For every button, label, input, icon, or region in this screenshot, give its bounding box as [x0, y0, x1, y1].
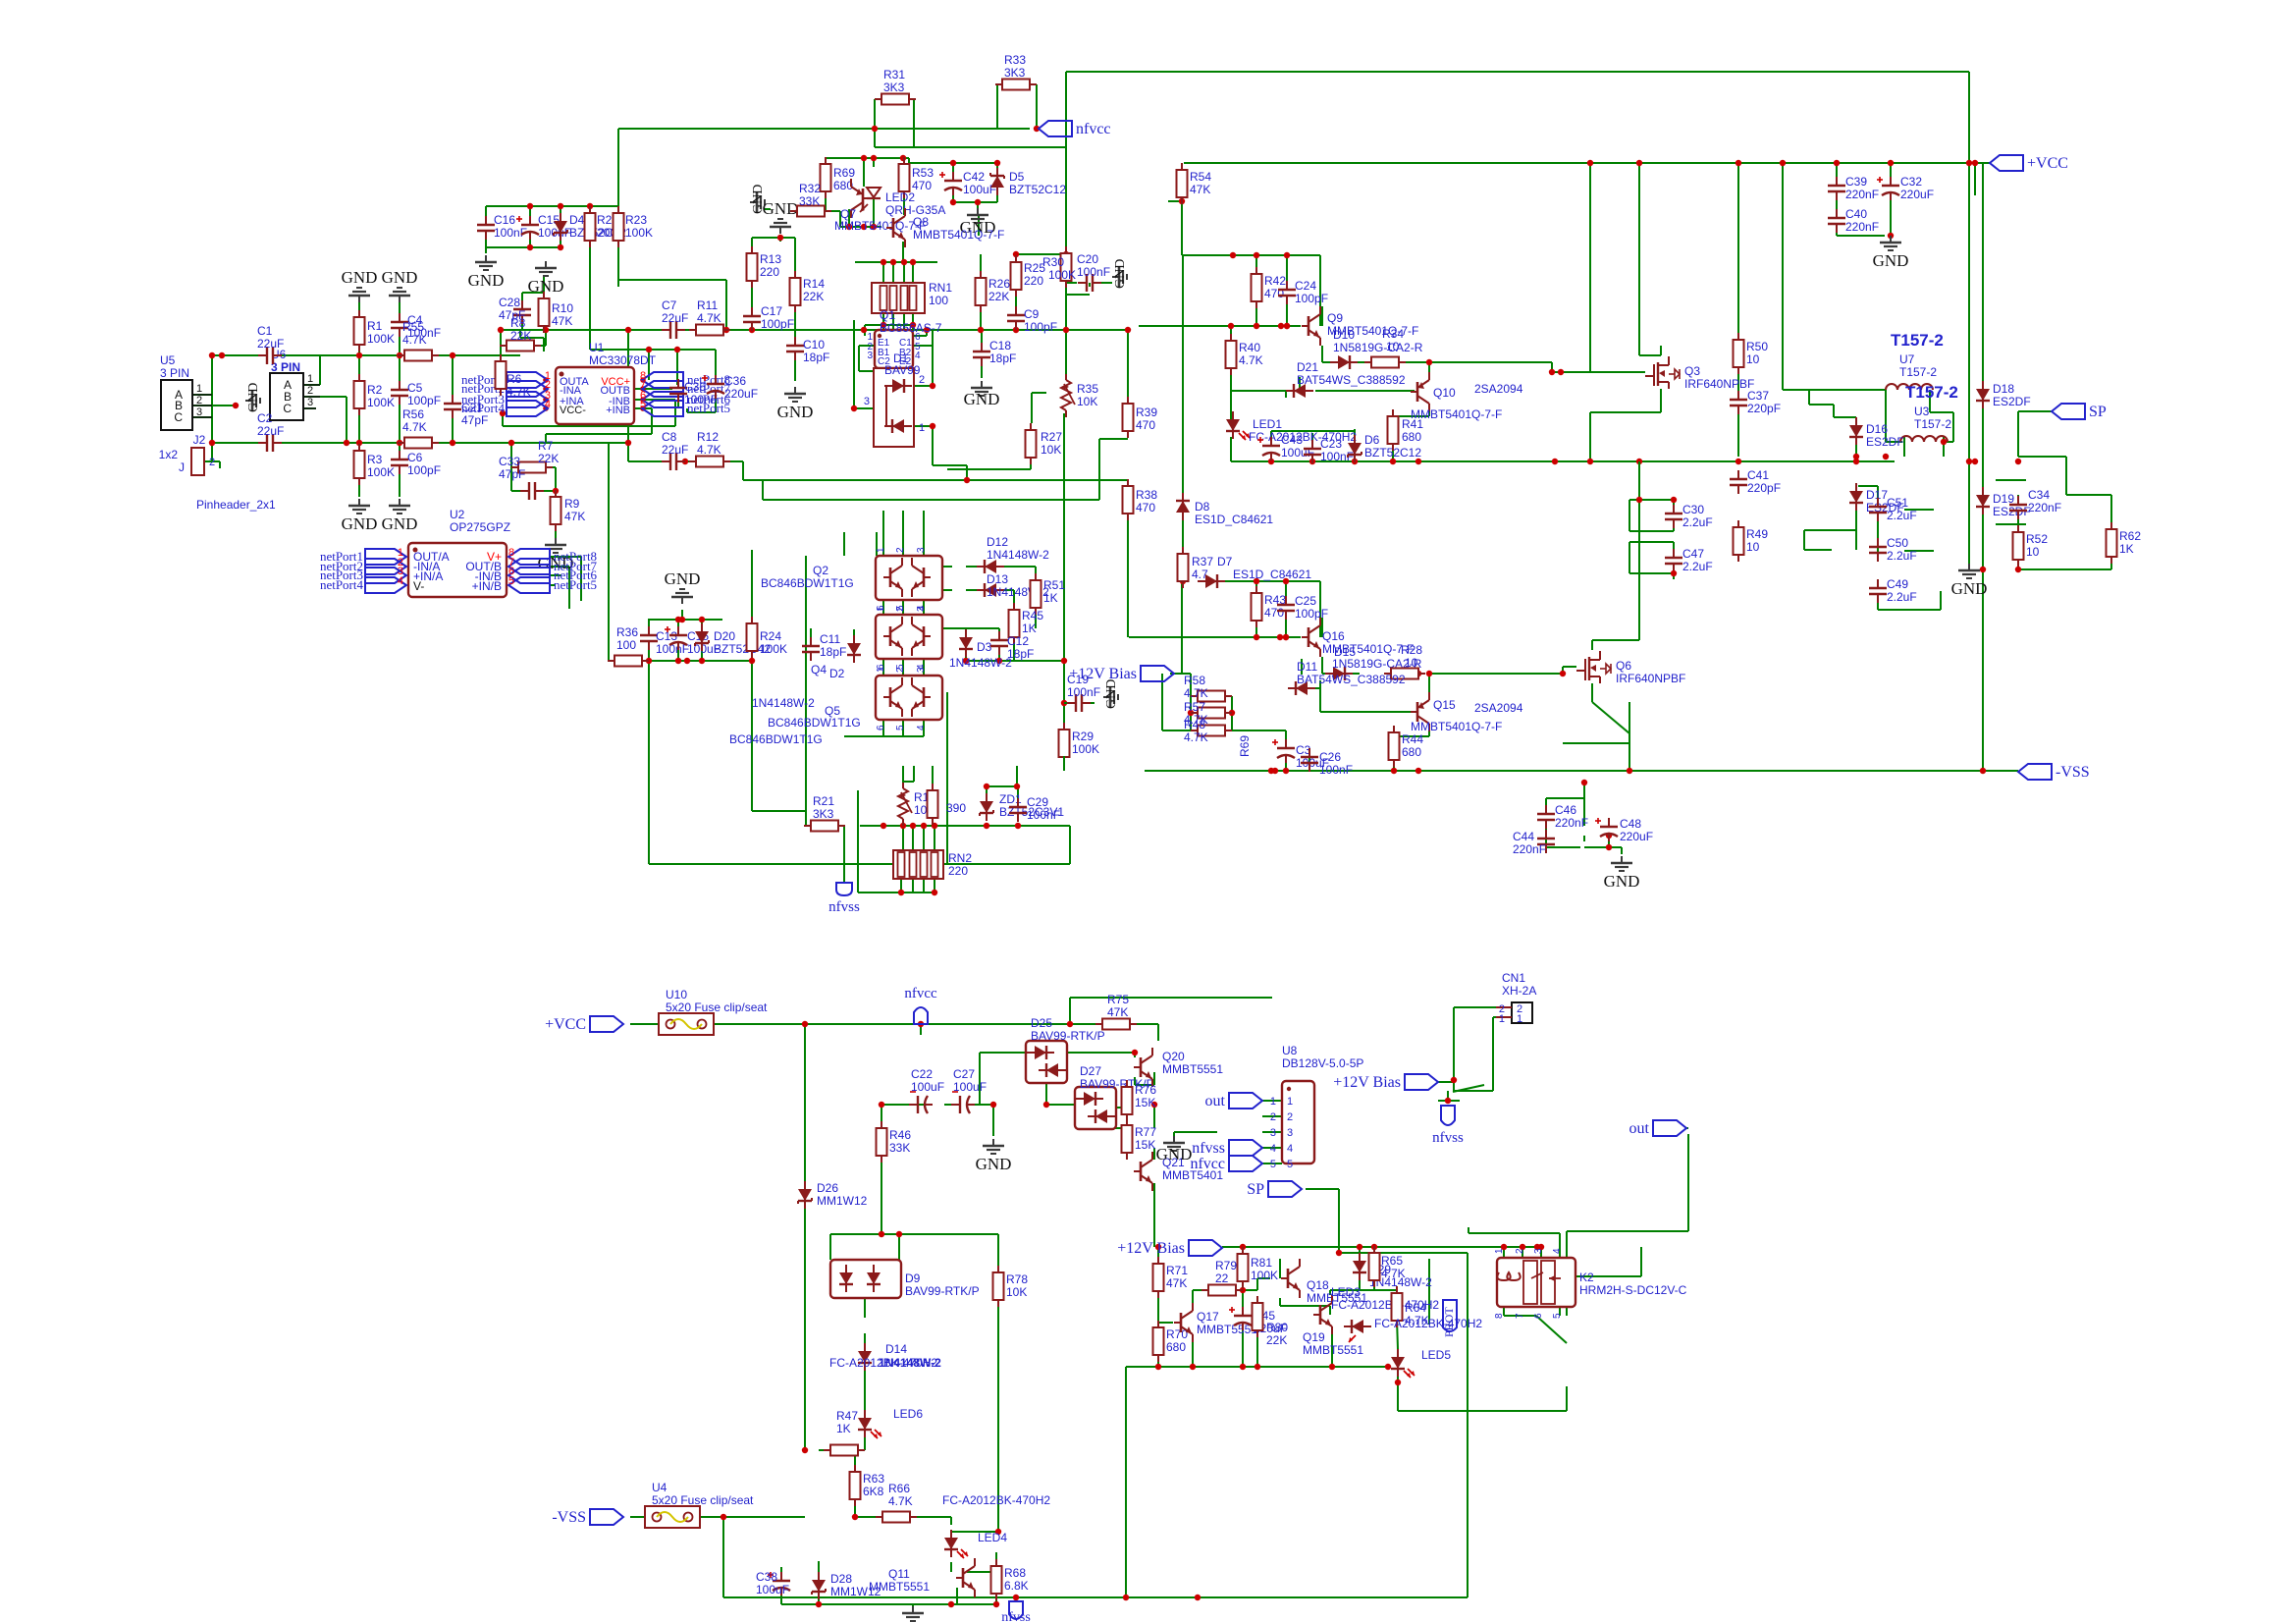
- svg-text:470: 470: [1136, 501, 1155, 514]
- resistor R6: [496, 354, 531, 399]
- resistor R64: [1392, 1286, 1429, 1327]
- resistor R78: [993, 1266, 1029, 1307]
- svg-text:22K: 22K: [1266, 1333, 1287, 1347]
- svg-text:C34: C34: [2028, 488, 2050, 502]
- svg-text:R8: R8: [510, 316, 526, 330]
- flag PROT: [1442, 1300, 1457, 1337]
- svg-text:3: 3: [196, 406, 202, 418]
- svg-text:LED5: LED5: [1421, 1348, 1451, 1362]
- svg-text:BAV99: BAV99: [884, 363, 921, 377]
- capacitor C48: [1595, 817, 1653, 843]
- ground near U5: [245, 383, 261, 412]
- svg-text:PROT: PROT: [1442, 1307, 1456, 1337]
- svg-text:R31: R31: [883, 68, 905, 81]
- svg-text:4: 4: [1552, 1248, 1563, 1254]
- svg-text:D9: D9: [905, 1271, 921, 1285]
- svg-text:nfvcc: nfvcc: [1076, 121, 1111, 137]
- svg-text:C48: C48: [1620, 817, 1641, 831]
- svg-text:R53: R53: [912, 166, 934, 180]
- svg-text:2.2uF: 2.2uF: [1887, 549, 1917, 563]
- svg-text:C2: C2: [257, 411, 273, 425]
- svg-text:C5: C5: [407, 381, 423, 395]
- svg-text:100uF: 100uF: [756, 1583, 789, 1596]
- resistor R53: [899, 157, 934, 198]
- resistor R48: [1184, 718, 1232, 744]
- svg-text:100nF: 100nF: [1027, 808, 1060, 822]
- svg-text:1N4148W-2: 1N4148W-2: [879, 1356, 941, 1370]
- svg-text:GND: GND: [964, 390, 1000, 408]
- resistor R44: [1389, 726, 1424, 767]
- resistor R23: [614, 206, 654, 247]
- svg-text:100pF: 100pF: [407, 463, 441, 477]
- svg-text:100K: 100K: [367, 332, 395, 346]
- svg-text:R34: R34: [1382, 327, 1404, 341]
- transistor pair Q2: [761, 547, 942, 611]
- svg-text:100K: 100K: [367, 465, 395, 479]
- svg-text:680: 680: [1402, 745, 1421, 759]
- resistor R32: [790, 182, 831, 217]
- svg-text:D26: D26: [817, 1181, 838, 1195]
- svg-text:C22: C22: [911, 1067, 933, 1081]
- svg-text:Q2: Q2: [813, 564, 828, 577]
- capacitor C20: [1077, 252, 1110, 292]
- resistor R43: [1252, 586, 1287, 627]
- svg-text:nfvcc: nfvcc: [1190, 1156, 1225, 1172]
- capacitor C10: [786, 337, 829, 364]
- svg-text:Q20: Q20: [1162, 1050, 1185, 1063]
- resistor R76: [1122, 1080, 1157, 1121]
- svg-text:D10: D10: [1333, 328, 1355, 342]
- resistor R7: [511, 439, 559, 473]
- svg-text:D7: D7: [1217, 555, 1233, 568]
- svg-text:D28: D28: [830, 1572, 852, 1586]
- svg-text:D13: D13: [987, 572, 1008, 586]
- svg-text:22uF: 22uF: [257, 337, 284, 351]
- fuse U4: [645, 1481, 754, 1528]
- transistor pair Q5: [729, 667, 942, 746]
- transistor Q7 with LED2: [834, 179, 945, 233]
- resistor R55: [398, 320, 439, 361]
- svg-text:Q11: Q11: [888, 1567, 910, 1581]
- svg-text:220nF: 220nF: [2028, 501, 2061, 514]
- resistor R37: [1178, 547, 1214, 588]
- svg-text:100nF: 100nF: [1077, 265, 1110, 279]
- svg-text:3: 3: [1270, 1127, 1276, 1139]
- inductor U3 T157-2: [1900, 383, 1958, 442]
- svg-text:6.8K: 6.8K: [1004, 1579, 1029, 1593]
- capacitor C35: [669, 379, 718, 406]
- resistor R69: [821, 157, 856, 198]
- svg-text:100nF: 100nF: [1067, 685, 1100, 699]
- capacitor C45: [1229, 1307, 1287, 1335]
- connector U8: [1270, 1044, 1364, 1170]
- svg-text:-VSS: -VSS: [552, 1509, 586, 1526]
- label R69 rotated: [1238, 735, 1252, 757]
- svg-text:C40: C40: [1845, 207, 1867, 221]
- netPort1 arrow at U2: [320, 547, 406, 565]
- svg-text:D11: D11: [1297, 660, 1317, 674]
- svg-text:IRF640NPBF: IRF640NPBF: [1684, 377, 1754, 391]
- net flag +12V Bias relay: [1117, 1240, 1222, 1257]
- svg-text:R46: R46: [889, 1128, 911, 1142]
- svg-text:ES2DF: ES2DF: [1993, 395, 2031, 408]
- svg-text:5: 5: [1287, 1159, 1293, 1170]
- svg-text:R9: R9: [564, 497, 580, 511]
- ground far right: [1951, 564, 1988, 598]
- svg-text:22K: 22K: [510, 329, 531, 343]
- svg-text:2: 2: [209, 457, 215, 468]
- diode D8: [1176, 493, 1273, 526]
- svg-text:R40: R40: [1239, 341, 1260, 354]
- capacitor C6: [391, 451, 441, 477]
- label FC relay: [1374, 1317, 1482, 1330]
- svg-text:100uF: 100uF: [911, 1080, 944, 1094]
- net flag nfvcc bottom: [904, 986, 937, 1024]
- connector CN1: [1496, 971, 1536, 1025]
- connector U6: [270, 348, 320, 420]
- svg-text:1N5819G-CA2-R: 1N5819G-CA2-R: [1333, 341, 1423, 354]
- svg-text:D20: D20: [714, 629, 735, 643]
- svg-text:1K: 1K: [2119, 542, 2134, 556]
- svg-text:100K: 100K: [367, 396, 395, 409]
- svg-text:K2: K2: [1579, 1271, 1594, 1284]
- svg-text:netPort4: netPort4: [461, 401, 506, 415]
- svg-text:470: 470: [1136, 418, 1155, 432]
- svg-text:R3: R3: [367, 453, 383, 466]
- svg-text:47K: 47K: [1190, 183, 1210, 196]
- svg-text:C32: C32: [1900, 175, 1922, 189]
- diode array D9: [830, 1260, 980, 1298]
- svg-text:OP275GPZ: OP275GPZ: [450, 520, 510, 534]
- svg-text:220nF: 220nF: [1555, 816, 1588, 830]
- svg-text:HRM2H-S-DC12V-C: HRM2H-S-DC12V-C: [1579, 1283, 1687, 1297]
- svg-text:MMBT5401Q-7-F: MMBT5401Q-7-F: [1411, 407, 1502, 421]
- capacitor C34: [2009, 488, 2061, 519]
- svg-text:4: 4: [916, 725, 927, 730]
- svg-text:R52: R52: [2026, 532, 2048, 546]
- svg-text:4.7K: 4.7K: [1184, 686, 1208, 700]
- ground below C15: [528, 261, 564, 296]
- svg-text:C18: C18: [989, 339, 1011, 352]
- svg-text:18pF: 18pF: [989, 352, 1016, 365]
- svg-text:1N4148W-2: 1N4148W-2: [949, 656, 1012, 670]
- svg-text:R55: R55: [402, 320, 424, 334]
- svg-text:CN1: CN1: [1502, 971, 1525, 985]
- capacitor C14: [665, 626, 721, 656]
- resistor R57: [1184, 700, 1232, 727]
- diode D18: [1976, 381, 2031, 408]
- svg-text:220uF: 220uF: [724, 387, 758, 401]
- diode D2: [752, 635, 861, 710]
- svg-text:GND: GND: [528, 277, 564, 296]
- svg-text:3: 3: [307, 397, 313, 408]
- svg-text:R39: R39: [1136, 406, 1157, 419]
- svg-text:3: 3: [1533, 1248, 1544, 1254]
- svg-text:R21: R21: [813, 794, 834, 808]
- svg-text:netPort4: netPort4: [320, 577, 364, 592]
- svg-text:BC846BDW1T1G: BC846BDW1T1G: [768, 716, 861, 730]
- net flag -VSS bottom: [552, 1509, 623, 1526]
- svg-text:R11: R11: [697, 298, 718, 312]
- svg-text:D3: D3: [977, 640, 992, 654]
- svg-text:D27: D27: [1080, 1064, 1101, 1078]
- netPort1 arrow at U1: [461, 370, 551, 388]
- svg-text:47pF: 47pF: [461, 413, 488, 427]
- svg-text:R26: R26: [988, 277, 1010, 291]
- svg-text:3: 3: [916, 547, 927, 553]
- svg-text:GND: GND: [1156, 1145, 1193, 1163]
- svg-text:1: 1: [1517, 1013, 1522, 1025]
- svg-text:GND: GND: [382, 514, 418, 533]
- svg-text:4.7K: 4.7K: [1381, 1267, 1406, 1280]
- capacitor C51: [1869, 496, 1917, 522]
- LED LED6: [858, 1407, 923, 1438]
- svg-text:10K: 10K: [1077, 395, 1097, 408]
- resistor R79: [1201, 1259, 1243, 1296]
- capacitor C44: [1513, 830, 1555, 856]
- svg-text:220pF: 220pF: [1747, 402, 1781, 415]
- capacitor C5: [391, 381, 441, 407]
- svg-text:MC33078DT: MC33078DT: [589, 353, 657, 367]
- diode array D27: [1075, 1064, 1154, 1129]
- svg-text:R1: R1: [367, 319, 383, 333]
- netPort5 arrow at U1: [640, 399, 730, 416]
- svg-text:10: 10: [1746, 540, 1760, 554]
- capacitor C11: [802, 632, 846, 661]
- diode D29: [1353, 1253, 1432, 1289]
- svg-text:R14: R14: [803, 277, 825, 291]
- svg-text:U1: U1: [589, 341, 605, 354]
- svg-text:15K: 15K: [1135, 1138, 1155, 1152]
- diode D19: [1976, 487, 2031, 518]
- svg-text:220uF: 220uF: [1620, 830, 1653, 843]
- svg-text:+VCC: +VCC: [545, 1016, 586, 1033]
- svg-text:C19: C19: [1067, 673, 1089, 686]
- svg-text:VCC-: VCC-: [560, 405, 586, 416]
- svg-text:U4: U4: [652, 1481, 667, 1494]
- zener D6: [1348, 433, 1421, 462]
- capacitor C8: [662, 430, 688, 470]
- svg-text:47pF: 47pF: [499, 467, 525, 481]
- svg-text:22uF: 22uF: [662, 311, 688, 325]
- capacitor C37: [1730, 389, 1781, 415]
- capacitor C41: [1730, 468, 1781, 495]
- transistor Q19: [1303, 1295, 1363, 1357]
- svg-text:C: C: [283, 402, 292, 415]
- svg-text:MMBT5551: MMBT5551: [1162, 1062, 1223, 1076]
- svg-text:R69: R69: [833, 166, 855, 180]
- svg-text:2SA2094: 2SA2094: [1474, 382, 1523, 396]
- netPort3 arrow at U1: [461, 390, 551, 407]
- svg-text:FC-A2012BK-470H2: FC-A2012BK-470H2: [1374, 1317, 1482, 1330]
- resistor R75: [1095, 993, 1137, 1030]
- diode D21: [1286, 360, 1406, 398]
- transistor Q9: [1302, 306, 1418, 346]
- netPort2 arrow at U2: [320, 557, 406, 574]
- capacitor C12: [990, 631, 1034, 661]
- svg-text:R35: R35: [1077, 382, 1098, 396]
- svg-text:R62: R62: [2119, 529, 2141, 543]
- svg-text:100pF: 100pF: [761, 317, 794, 331]
- capacitor C23: [1304, 437, 1354, 463]
- net flag +12V Bias: [1069, 666, 1174, 682]
- resistor R38: [1123, 479, 1158, 520]
- net flag nfvss bottom: [1001, 1601, 1031, 1623]
- svg-text:D2: D2: [829, 667, 845, 680]
- svg-text:R80: R80: [1266, 1321, 1288, 1334]
- capacitor C33: [499, 455, 544, 500]
- svg-text:22K: 22K: [538, 452, 559, 465]
- svg-text:1K: 1K: [1022, 622, 1037, 635]
- svg-text:T157-2: T157-2: [1899, 365, 1937, 379]
- svg-text:Q17: Q17: [1197, 1310, 1219, 1324]
- svg-text:BAV99-RTK/P: BAV99-RTK/P: [905, 1284, 980, 1298]
- svg-text:GND: GND: [665, 569, 701, 588]
- netPort3 arrow at U2: [320, 566, 406, 583]
- svg-text:GND: GND: [1104, 679, 1119, 709]
- ground at U8: [1156, 1136, 1193, 1163]
- resistor R63: [850, 1465, 885, 1506]
- svg-text:R66: R66: [888, 1482, 910, 1495]
- wire: [192, 72, 2111, 1606]
- ground below C27: [976, 1139, 1012, 1173]
- svg-text:ES1D_C84621: ES1D_C84621: [1233, 568, 1311, 581]
- svg-text:R51: R51: [1043, 578, 1065, 592]
- resistor R21: [804, 794, 845, 832]
- svg-text:470: 470: [1264, 606, 1284, 620]
- svg-text:390: 390: [946, 801, 966, 815]
- resistor R70: [1153, 1321, 1189, 1362]
- resistor R71: [1153, 1257, 1189, 1298]
- resistor R65: [1369, 1246, 1406, 1287]
- svg-text:100pF: 100pF: [1295, 292, 1328, 305]
- capacitor C1: [257, 324, 284, 364]
- svg-text:100K: 100K: [760, 642, 787, 656]
- resistor R77: [1122, 1118, 1157, 1160]
- svg-text:47K: 47K: [1107, 1005, 1128, 1019]
- svg-text:R54: R54: [1190, 170, 1211, 184]
- svg-text:nfvcc: nfvcc: [904, 986, 937, 1001]
- zener D5: [990, 168, 1066, 196]
- net flag +VCC bottom: [545, 1016, 623, 1033]
- svg-text:10K: 10K: [1041, 443, 1061, 457]
- wire: [1064, 461, 1674, 771]
- capacitor C38: [756, 1570, 790, 1596]
- svg-text:100nF: 100nF: [684, 393, 718, 406]
- capacitor C7: [662, 298, 688, 339]
- svg-text:100pF: 100pF: [407, 394, 441, 407]
- svg-text:15K: 15K: [1135, 1096, 1155, 1109]
- netPort4 arrow at U2: [320, 575, 406, 593]
- svg-text:5x20 Fuse clip/seat: 5x20 Fuse clip/seat: [666, 1001, 768, 1014]
- resistor network RN1: [872, 281, 952, 313]
- svg-text:BZT52C12: BZT52C12: [1009, 183, 1066, 196]
- svg-text:2: 2: [196, 395, 202, 406]
- resistor R39: [1123, 397, 1158, 438]
- svg-text:SP: SP: [2089, 404, 2107, 420]
- svg-text:220: 220: [948, 864, 968, 878]
- transistor pair Q4: [811, 606, 942, 680]
- svg-text:R37: R37: [1192, 555, 1213, 568]
- transistor Q10: [1411, 372, 1523, 421]
- svg-text:C16: C16: [494, 213, 515, 227]
- ground right of C20: [1112, 259, 1128, 289]
- resistor R34: [1364, 327, 1406, 368]
- netPort2 arrow at U1: [461, 379, 551, 397]
- svg-text:J: J: [179, 460, 185, 474]
- svg-text:Q16: Q16: [1322, 629, 1345, 643]
- ground above C13: [665, 569, 701, 604]
- svg-text:BAV99-RTK/P: BAV99-RTK/P: [1031, 1029, 1105, 1043]
- svg-text:4.7K: 4.7K: [697, 311, 721, 325]
- svg-text:10: 10: [1405, 656, 1418, 670]
- netPort7 arrow at U1: [640, 379, 731, 397]
- svg-text:C20: C20: [1077, 252, 1098, 266]
- net flag +12V Bias CN1: [1333, 1074, 1438, 1091]
- svg-text:R10: R10: [552, 301, 573, 315]
- capacitor C36: [702, 374, 758, 401]
- svg-text:GND: GND: [777, 403, 814, 421]
- diode D7: [1198, 555, 1311, 588]
- svg-text:nfvss: nfvss: [828, 899, 860, 915]
- svg-text:IRF640NPBF: IRF640NPBF: [1616, 672, 1685, 685]
- svg-text:Q1: Q1: [880, 308, 895, 322]
- svg-text:220: 220: [1024, 274, 1043, 288]
- zener ZD1: [980, 792, 1064, 821]
- resistor R45: [1009, 603, 1044, 644]
- resistor R49: [1734, 520, 1769, 562]
- resistor R54: [1177, 163, 1212, 204]
- resistor R28: [1384, 643, 1425, 679]
- svg-text:220pF: 220pF: [1747, 481, 1781, 495]
- svg-text:V-: V-: [413, 579, 424, 593]
- LED LED3: [1331, 1285, 1439, 1342]
- svg-text:SP: SP: [1247, 1181, 1264, 1198]
- svg-text:R24: R24: [760, 629, 781, 643]
- svg-text:GND: GND: [1873, 251, 1909, 270]
- resistor R81: [1238, 1247, 1279, 1288]
- svg-text:BAT54WS_C388592: BAT54WS_C388592: [1297, 373, 1406, 387]
- capacitor C24: [1278, 279, 1328, 305]
- svg-text:3: 3: [1287, 1127, 1293, 1139]
- diode D14: [829, 1342, 941, 1371]
- svg-text:1K: 1K: [1043, 591, 1058, 605]
- svg-text:U3: U3: [1914, 405, 1930, 418]
- svg-text:C11: C11: [820, 632, 840, 646]
- svg-text:C25: C25: [1295, 594, 1316, 608]
- svg-text:100K: 100K: [1048, 268, 1076, 282]
- ground 2: [763, 199, 799, 234]
- svg-text:4: 4: [915, 351, 921, 361]
- svg-text:R23: R23: [625, 213, 647, 227]
- capacitor C16: [477, 213, 527, 240]
- svg-text:100pF: 100pF: [1024, 320, 1057, 334]
- svg-text:47K: 47K: [564, 510, 585, 523]
- capacitor C29: [1009, 795, 1060, 822]
- svg-text:C29: C29: [1027, 795, 1048, 809]
- net flag out right: [1629, 1120, 1686, 1137]
- svg-text:GND: GND: [342, 268, 378, 287]
- net flag nfvss at U8: [1192, 1140, 1262, 1157]
- svg-text:1: 1: [1499, 1013, 1505, 1025]
- svg-text:Q15: Q15: [1433, 698, 1456, 712]
- svg-text:R12: R12: [697, 430, 719, 444]
- capacitor C39: [1828, 175, 1879, 201]
- svg-text:3: 3: [916, 606, 927, 612]
- capacitor C27: [951, 1067, 987, 1113]
- net flag SP bottom: [1247, 1181, 1302, 1198]
- svg-text:10: 10: [2026, 545, 2040, 559]
